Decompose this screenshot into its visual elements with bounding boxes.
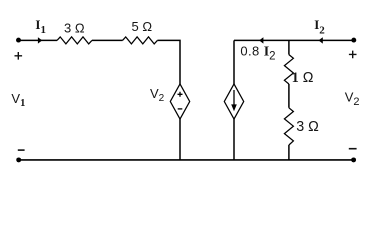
minus sign port2 [349, 148, 357, 150]
bottom rail wire [19, 159, 354, 161]
terminal dot bottom-right [351, 157, 356, 162]
resistor 3ohm vertical [284, 108, 293, 145]
svg-text:I1: I1 [35, 17, 46, 36]
plus sign port2 [349, 51, 357, 59]
wire 5ohm to corner down to V2 source [157, 40, 180, 84]
svg-text:1 Ω: 1 Ω [292, 70, 314, 86]
arrow I1 [38, 37, 42, 43]
wire junction down to 1ohm [288, 40, 290, 54]
svg-text:V2: V2 [345, 89, 360, 107]
terminal dot top-left [16, 38, 21, 43]
wire 3ohm to bottom rail [288, 145, 290, 160]
terminal dot bottom-left [16, 157, 21, 162]
current source arrow head [231, 104, 237, 111]
wire V2 source bottom to rail [179, 119, 181, 160]
svg-text:V1: V1 [11, 91, 25, 109]
svg-text:3 Ω: 3 Ω [296, 119, 319, 135]
wire corner down to current source [233, 40, 235, 84]
svg-text:V2: V2 [150, 86, 165, 104]
resistor 1ohm vertical [284, 55, 293, 84]
arrow 0.8I2 pointing left [259, 37, 263, 43]
plus sign inside source [178, 92, 183, 97]
arrow I2 pointing left [319, 37, 323, 43]
minus sign inside source [178, 108, 183, 110]
svg-text:3 Ω: 3 Ω [64, 20, 85, 35]
svg-text:5 Ω: 5 Ω [132, 19, 153, 34]
wire between 1ohm and 3ohm [288, 84, 290, 108]
dependent voltage source V2 diamond [170, 84, 189, 119]
wire top right rail from current source corner to right terminal [234, 39, 354, 41]
wire top-left from terminal to R 3ohm [19, 39, 58, 41]
minus sign port1 [18, 149, 25, 151]
plus sign port1 [15, 52, 23, 60]
resistor 5ohm horizontal [123, 37, 158, 44]
resistor 3ohm horizontal [57, 37, 92, 44]
dependent current source diamond [224, 84, 243, 119]
wire current source bottom to rail [233, 119, 235, 160]
terminal dot top-right [351, 38, 356, 43]
wire between 3ohm and 5ohm [92, 39, 123, 41]
current source arrow shaft [233, 90, 235, 106]
svg-text:I2: I2 [314, 17, 325, 36]
svg-text:0.8 I2: 0.8 I2 [240, 43, 275, 62]
